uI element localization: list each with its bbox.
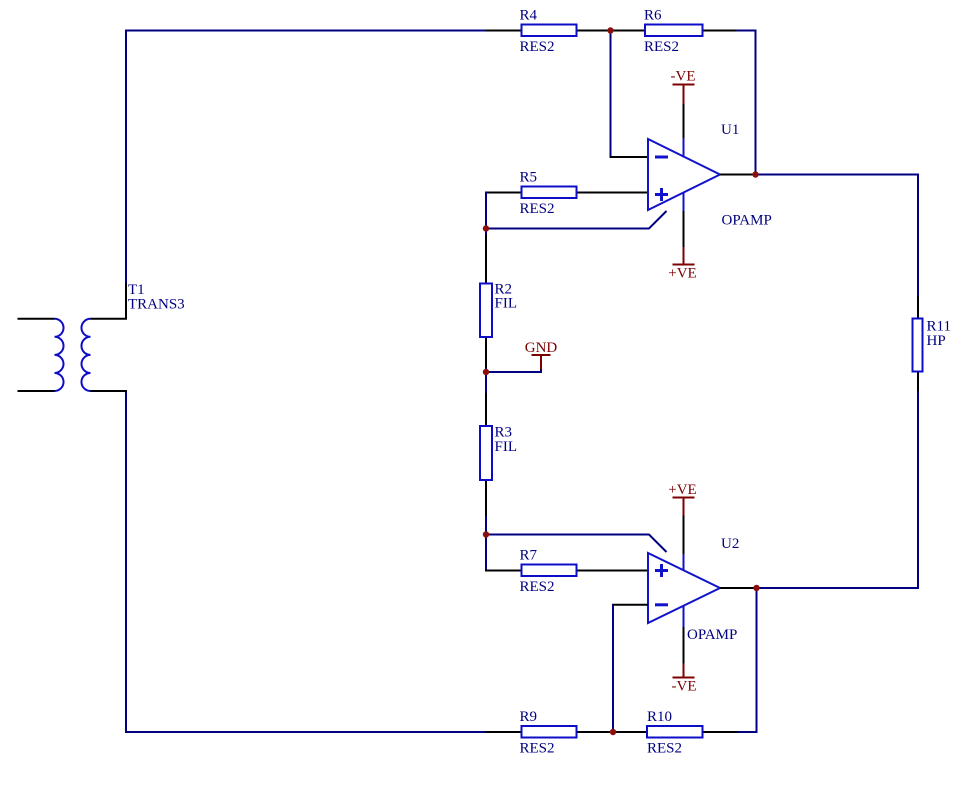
- svg-text:HP: HP: [927, 333, 946, 349]
- wire U2 output to R11 bottom: [757, 390, 919, 588]
- svg-text:R9: R9: [520, 709, 538, 725]
- junction R9-R10 node: [610, 729, 616, 735]
- wire R3 to lower junction: [485, 516, 487, 536]
- svg-text:RES2: RES2: [520, 201, 555, 217]
- power -VE below U2: [672, 663, 697, 695]
- node A junction below R5: [483, 225, 489, 231]
- svg-text:+VE: +VE: [668, 482, 696, 498]
- svg-text:FIL: FIL: [495, 296, 518, 312]
- wire junction to diagonal under U1: [485, 211, 667, 229]
- wire between R4 and R6: [610, 30, 628, 32]
- wire left vertical upper: [125, 30, 127, 285]
- U1 minus sign: [655, 156, 668, 159]
- svg-text:R5: R5: [520, 170, 538, 186]
- svg-text:+VE: +VE: [668, 266, 696, 282]
- left winding lead bottom: [18, 390, 55, 392]
- resistor R5: [485, 170, 648, 217]
- left winding lead top: [18, 318, 55, 320]
- svg-text:TRANS3: TRANS3: [128, 297, 185, 313]
- power +VE below U1: [668, 247, 696, 282]
- resistor R2: [480, 234, 517, 370]
- wire U2 output down to R10: [737, 587, 757, 732]
- resistor R6: [627, 8, 738, 55]
- junction R4-R6 node: [607, 27, 613, 33]
- svg-text:RES2: RES2: [644, 39, 679, 55]
- node GND junction: [483, 369, 489, 375]
- svg-text:R7: R7: [520, 548, 538, 564]
- svg-text:GND: GND: [525, 340, 558, 356]
- ground GND symbol: [525, 340, 558, 370]
- U2 minus sign: [655, 603, 668, 606]
- transformer T1: [18, 282, 185, 391]
- op-amp U2: [648, 536, 739, 643]
- svg-text:U1: U1: [721, 122, 739, 138]
- wire U2 inverting input pin: [612, 604, 648, 606]
- wire junction down to R7 row: [485, 534, 487, 572]
- wire U1 inverting input pin: [610, 156, 649, 158]
- resistor R3: [480, 392, 517, 517]
- wire feedback junction down to U1 inverting input: [610, 30, 612, 158]
- svg-text:OPAMP: OPAMP: [722, 213, 772, 229]
- wire U1 output to R11 top: [756, 175, 919, 298]
- op-amp U1: [648, 122, 772, 229]
- svg-text:FIL: FIL: [495, 439, 518, 455]
- svg-text:RES2: RES2: [520, 39, 555, 55]
- wire +VE to U2 top power pin: [683, 516, 685, 555]
- resistor R11: [913, 296, 951, 391]
- wire U2 inverting to R9-R10 junction: [612, 605, 614, 733]
- node B junction below R3: [483, 531, 489, 537]
- svg-text:RES2: RES2: [520, 740, 555, 756]
- svg-text:R4: R4: [520, 8, 538, 24]
- svg-text:R10: R10: [647, 709, 672, 725]
- wire junction to R2: [485, 228, 487, 235]
- U1 plus sign: [655, 193, 668, 196]
- U2 bottom power pin: [683, 605, 685, 628]
- wire left node vertical R5 to junction: [485, 192, 487, 230]
- resistor R4: [486, 8, 611, 55]
- wire R2 to GND junction: [485, 368, 487, 373]
- wire GND junction to R3: [485, 371, 487, 393]
- junction U2 output node: [753, 585, 759, 591]
- wire U1 bottom power pin to +VE: [683, 211, 685, 247]
- left winding coil: [55, 319, 64, 391]
- junction U1 output node: [752, 171, 758, 177]
- right winding lead top: [91, 283, 127, 319]
- wire U1 output pin: [720, 174, 756, 176]
- wire R6 to top-right corner: [737, 31, 756, 175]
- right winding lead bottom: [91, 390, 128, 392]
- svg-text:OPAMP: OPAMP: [687, 627, 737, 643]
- power -VE above U1: [671, 69, 696, 105]
- wire bottom net horizontal: [125, 731, 487, 733]
- svg-text:U2: U2: [721, 536, 739, 552]
- wire GND stub: [485, 368, 541, 372]
- svg-text:RES2: RES2: [520, 579, 555, 595]
- wire junction to diagonal above U2: [485, 535, 667, 553]
- resistor R9: [486, 709, 648, 756]
- U1 bottom power pin: [683, 192, 685, 212]
- wire top net horizontal: [125, 30, 487, 32]
- U1 top power pin: [683, 137, 685, 158]
- svg-text:R6: R6: [644, 8, 662, 24]
- svg-text:-VE: -VE: [671, 69, 696, 85]
- right winding coil: [81, 319, 90, 391]
- wire -VE to U1 top power pin: [683, 104, 685, 138]
- resistor R7: [485, 548, 648, 595]
- power +VE above U2: [668, 482, 696, 517]
- U2 plus sign: [655, 569, 668, 572]
- U2 top power pin: [683, 553, 685, 571]
- resistor R10: [647, 709, 738, 756]
- wire left vertical lower: [125, 390, 127, 733]
- svg-text:-VE: -VE: [672, 679, 697, 695]
- wire U2 bottom power pin to -VE: [683, 627, 685, 664]
- wire U2 output pin: [720, 587, 757, 589]
- svg-text:RES2: RES2: [647, 740, 682, 756]
